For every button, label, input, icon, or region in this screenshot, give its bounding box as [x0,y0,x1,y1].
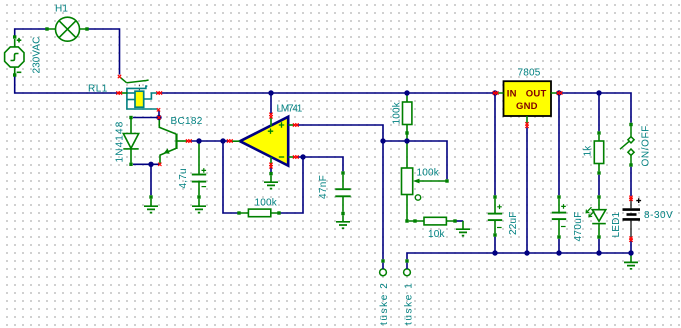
terminal square lamp right [85,27,88,30]
svg-text:RL1: RL1 [88,84,108,95]
terminal squares 22uF [493,195,496,198]
wire: feedback resistor right up to inverting input node [281,157,304,213]
wire: 100k bottom node to pot wiper [407,141,447,179]
svg-text:4,7u: 4,7u [178,168,189,188]
terminal squares feedback resistor [237,211,240,214]
ground (op-amp V-) [270,168,272,173]
svg-text:BC182: BC182 [171,116,203,127]
svg-text:LM741: LM741 [277,104,303,115]
svg-text:tüske 2: tüske 2 [379,283,390,325]
wire: 1k / LED column [598,93,600,253]
op-amp U1 LM741 [231,104,303,167]
lamp H1 [47,17,87,41]
wire: 7805 GND drop [526,128,528,254]
wire: bottom ground rail with tuske1 drop [407,253,631,259]
terminal squares LED [597,195,600,198]
relay frame wiring [127,86,158,109]
svg-text:ON/OFF: ON/OFF [641,126,652,167]
svg-text:OUT: OUT [526,89,547,100]
wire: 10k right pin to ground [457,220,464,222]
wire: AC source top to lamp H1 [15,29,46,38]
terminal square lamp left [45,27,48,30]
wire: battery bottom to rail [630,241,632,253]
wire: non-inverting input to divider node [298,125,384,141]
regulator U2 7805 [504,81,552,116]
wire: relay coil bottom to collector junction and diode top [133,111,159,118]
ground (47nF) [342,215,344,221]
svg-text:47nF: 47nF [318,175,329,199]
svg-text:22uF: 22uF [508,211,519,235]
wire: transistor base to op-amp output [189,140,230,142]
relay left pin [118,92,128,94]
relay RL1 [88,77,158,109]
terminal squares 1k [597,131,600,134]
svg-text:1k: 1k [583,145,594,157]
terminal square pot wiper [445,179,448,182]
terminal square 100k bottom [405,131,408,134]
relay link dashes [138,85,140,91]
transistor Q1 BC182 [159,118,187,164]
relay switch blade [120,77,149,83]
node tuske 2 [381,259,384,262]
capacitor C1 4.7u [192,143,206,195]
terminal square diode bottom [129,163,132,166]
terminal squares switch [629,123,632,126]
wire: emitter row to diode bottom and ground drop [133,164,160,195]
pot wiper arrow [413,179,420,184]
resistor R2 100k (feedback) [241,209,279,217]
terminal square source bottom [13,73,16,76]
svg-text:7805: 7805 [518,68,541,79]
resistor R5 10k [409,217,454,225]
op-amp input/power markers [268,122,284,157]
switch S1 ON/OFF [620,126,634,164]
ground (4.7u) [198,199,200,206]
ground (10k) [462,221,464,229]
battery B1 8-30V [623,198,642,237]
svg-text:230VAC: 230VAC [32,37,43,74]
wire: 470uF column [558,95,560,254]
svg-text:1N4148: 1N4148 [115,121,126,162]
wire: op-amp V+ drop from rail [270,93,272,114]
svg-text:LED1: LED1 [611,211,622,237]
svg-text:8-30V: 8-30V [644,210,673,221]
terminal squares 470uF [557,195,560,198]
capacitor C4 470uF [552,199,566,236]
wire: output junction down to feedback resistor [223,141,238,213]
resistor R6 1k [594,135,603,172]
capacitor C2 47nF [335,175,350,212]
transistor emitter arrow [164,148,170,153]
svg-text:100k: 100k [392,101,403,124]
terminal square 4.7u bottom [197,195,200,198]
wire: node row between tuske2 node and 100k bottom node [383,140,407,142]
wire: AC source bottom to relay left pin [15,76,117,93]
diode 1N4148 [123,119,138,163]
wire: 7805 OUT rail to switch column [561,93,631,123]
diode LED1 [586,199,606,236]
terminal square 47nF top [341,171,344,174]
ground (bottom right rail) [630,253,632,262]
svg-text:tüske 1: tüske 1 [404,283,415,325]
node tuske 1 [405,259,408,262]
wire: lamp H1 to relay switch pin [88,29,120,75]
wire: inverting input node to 47nF [298,157,344,171]
terminal square diode top [129,116,132,119]
terminal square 47nF bottom [341,212,344,215]
ground (emitter) [149,195,152,198]
wire: tuske2 drop [382,141,384,259]
svg-text:10k: 10k [428,229,446,240]
AC source V1 230VAC [5,38,24,74]
svg-text:470uF: 470uF [573,212,584,242]
svg-text:H1: H1 [55,3,68,14]
relay coil [135,91,144,107]
potentiometer R4 100k [402,141,446,220]
svg-text:GND: GND [516,101,538,112]
wire: 22uF column [494,95,496,254]
terminal square pot bottom [405,219,408,222]
wire: relay right pin to 7805 IN (top rail) [162,92,494,94]
wire: switch to battery [630,167,632,196]
op-amp pins [231,116,295,166]
terminal squares 10k [413,219,416,222]
resistor R3 100k (vertical) [403,95,412,140]
svg-text:IN: IN [507,89,517,100]
7805 pins [497,93,559,123]
svg-text:100k: 100k [417,168,440,179]
pin cross marks [118,75,121,78]
capacitor C3 22uF [488,199,502,234]
terminal square source top [13,35,16,38]
svg-text:100k: 100k [255,198,278,209]
